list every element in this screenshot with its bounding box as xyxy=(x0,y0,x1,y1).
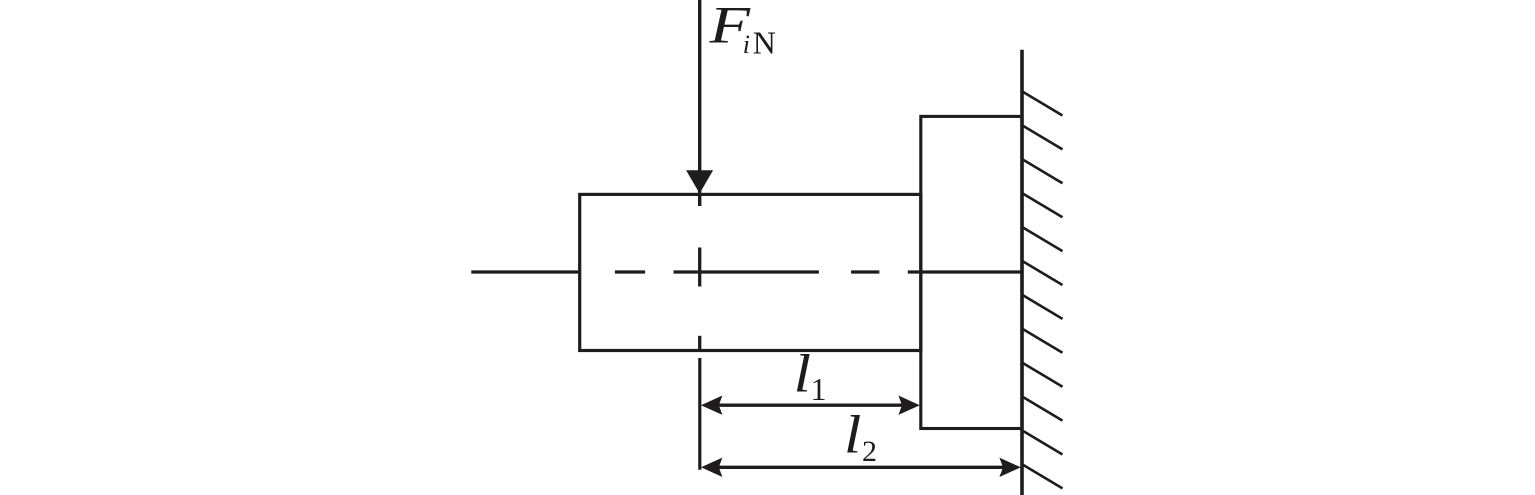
svg-text:2: 2 xyxy=(862,435,877,468)
svg-text:i: i xyxy=(743,30,750,59)
svg-text:N: N xyxy=(753,24,776,60)
svg-text:l: l xyxy=(794,344,812,404)
svg-text:l: l xyxy=(844,405,862,465)
svg-text:1: 1 xyxy=(811,371,827,407)
